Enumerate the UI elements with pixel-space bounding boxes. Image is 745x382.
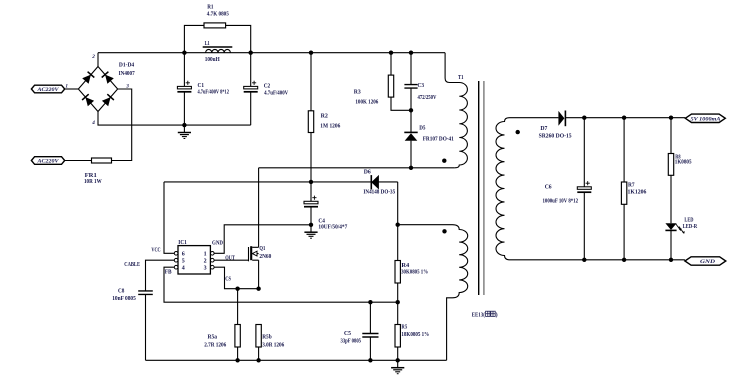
wire bridge pin 2 to DC+ rail [97,53,99,67]
wire VCC pin lead [164,182,174,253]
diode D6 IN4148 DO-35 [371,175,379,190]
svg-text:1000uF 10V 8*12: 1000uF 10V 8*12 [543,198,579,204]
resistor R5b 3.0R 1206 [256,325,261,348]
wire primary ground rail [146,359,447,361]
svg-text:LED: LED [684,217,694,223]
diode D7 SR260 DO-15 [558,111,564,126]
op-amp controller IC1 [178,246,210,274]
junction rail-R2 [309,51,313,55]
capacitor C3 472/250V [404,85,417,89]
resistor R2 1M 1206 [308,111,313,133]
svg-text:4: 4 [91,120,95,126]
junction aux top - divider [396,223,400,227]
diode D3 (bridge bottom-left) [85,97,94,106]
svg-text:IN4007: IN4007 [119,71,135,77]
svg-text:R1: R1 [207,5,213,11]
svg-text:3.0R 1206: 3.0R 1206 [262,342,284,348]
svg-text:EE13(: EE13( [472,311,485,318]
svg-text:FR107 DO-41: FR107 DO-41 [423,137,454,143]
wire AC input to bridge pin 1 [65,88,79,90]
wire R8 to LED [670,175,672,223]
junction rail-R3 [389,51,393,55]
diode D1 (bridge top-left) [82,75,91,84]
svg-text:C8: C8 [118,288,124,294]
svg-text:2N60: 2N60 [259,254,271,260]
wire C3 top lead [410,53,412,85]
svg-text:C3: C3 [418,83,425,89]
svg-text:1K1206: 1K1206 [628,189,647,195]
wire AC input to FR1 [65,160,92,162]
svg-text:SR260 DO-15: SR260 DO-15 [539,134,572,140]
junction gnd-R7 [622,258,626,262]
diode D5 FR107 DO-41 [410,110,412,168]
svg-text:R5a: R5a [208,335,218,341]
resistor R3 100K 1206 [388,75,393,97]
capacitor C4 10UF/50/4*7 [304,201,318,204]
junction FB-C5 [368,300,372,304]
svg-text:IN4148 DO-35: IN4148 DO-35 [363,190,395,196]
wire FR1 to bridge pin 3 [112,89,132,161]
junction snubber R3-C3-D5 [409,108,413,112]
resistor R1 4.7K 0805 [204,23,226,28]
svg-text:FR1: FR1 [85,173,97,179]
svg-text:1: 1 [65,83,68,89]
wire C1 bottom lead [183,92,185,125]
svg-text:4.7uF/400V 8*12: 4.7uF/400V 8*12 [198,90,229,96]
svg-text:AC220V: AC220V [36,87,59,93]
wire OUT pin to Q1 gate [214,259,248,261]
wire VCC supply line [164,181,398,183]
phase dot primary [442,159,446,163]
diode D2 (bridge top-right) [105,75,114,84]
wire R1 loop left [184,25,204,52]
svg-text:10nF 0805: 10nF 0805 [112,296,136,302]
svg-text:10UF/50/4*7: 10UF/50/4*7 [318,225,347,231]
wire R1 loop right [226,25,251,52]
svg-text:5V 1000mA: 5V 1000mA [691,116,721,122]
resistor R5 18K0805 1% [395,325,400,348]
wire C6 top lead [583,118,585,187]
svg-text:10R 1W: 10R 1W [84,179,102,185]
wire CABLE net [146,260,175,291]
svg-text:6: 6 [182,252,185,258]
junction 5V-R8 [669,116,673,120]
svg-text:C4: C4 [318,218,325,224]
wire R5b bottom lead [258,347,260,360]
transformer T1 primary winding [445,53,467,168]
svg-text:2: 2 [91,54,95,60]
svg-text:R5b: R5b [262,335,272,341]
svg-text:R2: R2 [321,113,328,119]
wire C4 bottom lead [310,207,312,225]
wire D6 to aux winding and R4 [397,182,399,261]
wire primary bottom to Q1 drain [259,167,455,169]
junction rail-C1-R1 [182,51,186,55]
svg-text:CS: CS [225,276,231,282]
capacitor C2 4.7uF/400V [244,86,258,89]
wire C5 bottom lead [369,337,371,360]
junction gnd-LED [669,258,673,262]
junction CS-R5b-source [256,287,260,291]
wire FB net [164,267,398,302]
transformer T1 secondary winding [496,118,685,260]
wire C3 bottom lead [410,88,412,110]
svg-text:GND: GND [212,241,224,247]
svg-text:30K0805 1%: 30K0805 1% [401,270,428,276]
wire LED bottom lead [670,230,672,259]
wire 5V output rail [565,117,685,119]
wire C2 top lead [250,53,252,87]
svg-text:100K 1206: 100K 1206 [355,99,378,105]
junction rail-R5b [256,358,260,362]
svg-text:100uH: 100uH [205,57,220,63]
wire C1 top lead [183,53,185,87]
ground (VCC cap) [310,225,312,232]
wire C5 top lead [369,302,371,333]
svg-text:D6: D6 [364,170,371,176]
svg-text:C1: C1 [198,83,205,89]
capacitor C5 33pF 0805 [362,334,378,338]
wire R5a top lead [237,289,239,325]
svg-text:C5: C5 [344,331,351,337]
resistor R7 1K1206 [621,182,626,204]
svg-text:1: 1 [204,252,207,258]
svg-text:R4: R4 [401,263,409,269]
svg-text:4: 4 [182,266,185,272]
svg-text:5: 5 [182,259,185,265]
phase dot auxiliary [442,229,446,233]
wire R3 top lead [390,53,392,75]
svg-text:D7: D7 [540,126,547,132]
junction VCC line - R2/C4 [309,180,313,184]
connector AC220V line input [31,85,64,93]
svg-text:CABLE: CABLE [124,262,140,268]
junction 5V-R7 [622,116,626,120]
svg-text:D5: D5 [419,126,425,132]
transistor Q1 2N60 [248,247,250,261]
wire R5 bottom lead [397,347,399,360]
bridge rectifier D1-D4 IN4007 diamond [78,67,117,112]
junction C1-ground [182,123,186,127]
diode D4 (bridge bottom-right) [102,97,111,106]
junction C4-GND wire [309,223,313,227]
wire C4 top lead [310,182,312,201]
svg-text:T1: T1 [458,75,464,81]
wire Q1 source [258,260,260,289]
svg-text:R7: R7 [628,183,635,189]
connector GND output [685,257,726,265]
wire DC+ top rail [98,52,445,54]
ground (primary filter) [183,125,185,132]
wire Q1 drain [258,168,260,248]
wire R4 bottom / R5 top [397,283,399,325]
svg-text:R5: R5 [401,325,407,331]
capacitor C1 4.7uF/400V 8*12 [177,86,191,89]
wire GND pin to C4 ground [214,225,311,254]
wire R5a bottom lead [237,347,239,360]
wire R7 top lead [623,118,625,182]
svg-text:IC1: IC1 [178,240,187,246]
junction D5-drain wire [409,166,413,170]
wire bridge pin 4 to DC- rail [98,112,251,126]
transformer T1 core EE13 [478,81,480,295]
svg-text:C2: C2 [264,83,271,89]
wire R2 bottom lead to VCC node [310,133,312,182]
svg-text:C6: C6 [545,184,552,190]
svg-text:AC220V: AC220V [36,159,59,165]
wire C2 bottom lead [250,92,252,125]
svg-text:18K0805 1%: 18K0805 1% [401,332,429,338]
svg-text:): ) [496,311,498,318]
wire R2 top lead [310,53,312,111]
resistor FR1 10R 1W [92,158,112,163]
phase dot secondary [516,130,520,134]
svg-text:3: 3 [125,83,129,89]
svg-text:1M 1206: 1M 1206 [320,124,340,130]
junction 5V-C6 [582,116,586,120]
svg-text:4.7K 0805: 4.7K 0805 [207,11,229,17]
resistor R8 1K0805 [668,154,673,176]
connector AC220V neutral input [31,157,64,165]
resistor R4 30K0805 1% [395,261,400,284]
ground (divider) [397,360,399,367]
junction FB-R4-R5 [396,300,400,304]
svg-text:3: 3 [204,266,207,272]
junction rail-C2-R1 [249,51,253,55]
resistor R5a 2.7R 1206 [235,325,240,348]
svg-text:L1: L1 [205,41,210,47]
wire R3 bottom to snubber node [391,97,411,110]
junction gnd-C6 [582,258,586,262]
wire CS net [214,267,259,289]
wire C6 bottom lead [583,192,585,260]
svg-text:GND: GND [700,259,715,265]
svg-text:VCC: VCC [151,248,160,254]
junction rail-C3 [409,51,413,55]
junction R5-ground rail [396,358,400,362]
svg-text:R3: R3 [354,90,361,96]
junction C5-ground rail [368,358,372,362]
capacitor C8 10nF 0805 [138,291,153,295]
junction CS-R5a [235,287,239,291]
connector 5V 1000mA output [685,114,725,122]
svg-text:2.7R 1206: 2.7R 1206 [204,342,226,348]
wire C8 bottom lead [145,294,147,360]
transformer T1 auxiliary winding [398,225,468,361]
inductor L1 100uH [206,49,231,52]
svg-text:Q1: Q1 [259,246,265,252]
svg-text:LED-R: LED-R [683,224,698,230]
svg-text:33pF 0805: 33pF 0805 [341,338,362,344]
svg-text:2: 2 [204,259,207,265]
junction rail-R5a [235,358,239,362]
svg-text:1K0805: 1K0805 [675,160,692,166]
LED LED-R indicator [665,223,676,230]
svg-text:D1-D4: D1-D4 [119,62,134,68]
svg-text:FB: FB [165,270,172,276]
capacitor C6 1000uF 10V 8*12 [577,187,591,190]
wire R7 bottom lead [623,204,625,259]
wire R8 top lead [670,118,672,154]
svg-text:4.7uF/400V: 4.7uF/400V [264,90,289,96]
svg-text:472/250V: 472/250V [418,95,438,101]
